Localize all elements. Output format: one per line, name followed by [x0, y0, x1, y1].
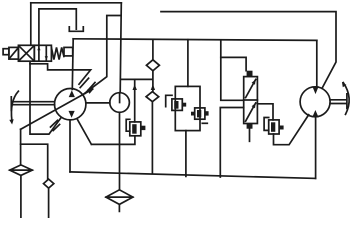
wire: filter F3 stub	[118, 204, 120, 211]
directional valve V2 flow diagonal lower	[246, 103, 256, 121]
relief valve RV2b tank dash	[202, 122, 207, 124]
relief RV2b poppet bar	[197, 110, 201, 117]
wire: pump P1 to pilot pump P2 link	[86, 102, 110, 104]
wire: bus line y=39	[73, 39, 317, 41]
pump P1 bottom flow triangle	[69, 111, 75, 118]
pilot valve block U1 body	[175, 86, 200, 130]
wire: block U1 down to return	[185, 131, 187, 177]
check arrow head on x=152.9	[151, 84, 155, 90]
check diamond D1	[146, 60, 159, 71]
filter F3 diamond	[106, 190, 133, 205]
wire: valve V2 right port to relief RV3	[257, 104, 273, 120]
pilot pump P2 port line	[119, 93, 121, 103]
return line y=172-178	[70, 172, 316, 179]
position box 1 crossed arrows	[20, 47, 33, 60]
solenoid diagonal	[10, 49, 18, 58]
wire: valve V1 port B riser	[39, 9, 76, 45]
valve V2 upper arrow head	[252, 79, 256, 84]
wire: pump P1 bottom to return line	[69, 120, 71, 172]
check diamond D2	[146, 92, 159, 102]
position box 2 arrow up	[37, 46, 40, 50]
solenoid valve V1 position box 1	[18, 45, 34, 61]
wire: staircase valve V1 bottom to pump swash	[30, 64, 91, 84]
wire: pump P1 outlet riser x=73	[71, 39, 74, 90]
motor M1 top flow triangle	[312, 86, 318, 94]
wire: relief RV1 drain	[78, 120, 135, 145]
wire: jog at y=15.5 to x=106.7 drop into pump P1	[83, 16, 121, 95]
relief valve RV2a body	[172, 99, 182, 111]
solenoid valve V1 right stub box	[64, 47, 73, 56]
wire: valve V1 port A riser to top line	[30, 3, 32, 45]
wire: vertical drop x=121 to pilot pump P2	[120, 3, 121, 93]
relief valve RV2b body	[195, 108, 205, 119]
variable arrow head	[87, 89, 94, 94]
drain cup symbol	[69, 27, 83, 32]
shaft rotation arrow	[11, 91, 18, 121]
wire: below filter F2 to bottom edge	[48, 188, 50, 218]
hatch stroke 2 at pump upper right	[85, 82, 95, 93]
wire: valve V1 left drain down x=30	[30, 61, 61, 134]
position box 2 arrow down	[45, 56, 48, 60]
wire: below filter F1 to bottom edge	[20, 175, 22, 218]
solenoid valve V1 solenoid box	[9, 47, 19, 59]
wire: solenoid pilot jog to valve V2 top	[221, 57, 246, 70]
relief valve RV1 spring nub	[141, 126, 146, 130]
filter F1 diamond	[10, 165, 33, 176]
relief RV2a poppet bar	[174, 101, 178, 109]
relief RV1 poppet bar	[132, 124, 136, 134]
solenoid valve V1 spring	[51, 47, 64, 59]
wire: top line y=2.8	[31, 2, 122, 4]
solenoid valve V1 left stub box	[3, 49, 9, 55]
wire: return riser to motor M1 bottom	[315, 118, 317, 179]
relief valve RV2b spring nub	[205, 111, 209, 115]
wire: arrow tail down to filter F1	[20, 129, 22, 165]
valve V2 lower arrow head	[252, 103, 256, 108]
position box 2 flow lines	[39, 47, 46, 61]
wire: bus drop x=152.9 to diamond D1	[152, 40, 154, 60]
pump P1 top flow triangle	[69, 90, 75, 97]
shaft rotation arrow head	[9, 119, 13, 124]
wire: diamond D2 down to return	[151, 102, 153, 173]
wire: upper bus line y=11.5	[161, 12, 336, 89]
directional valve V2 flow diagonal upper	[246, 79, 256, 97]
motor rotation arrow head	[342, 82, 347, 87]
wire: bus drop x=220.8 P-line to valve V2	[221, 40, 244, 100]
hatch stroke at pump lower left	[51, 120, 58, 127]
relief valve RV3 spring nub	[279, 126, 284, 130]
hatch stroke 2 at pump lower left	[53, 124, 59, 130]
wire: bus drop to motor M1 top	[316, 40, 318, 87]
wire: relief RV3 drain to motor M1	[274, 115, 309, 145]
pilot pump P2 circle	[110, 93, 130, 113]
wire: bus drop to block U1	[187, 40, 189, 87]
directional valve V2 divider	[244, 99, 258, 101]
wire: pilot pump P2 down to filter F3	[119, 112, 121, 190]
motor shaft rotation arrow	[343, 83, 349, 115]
wire: check line x=134.7 to relief RV1	[134, 79, 136, 122]
relief valve RV3 pilot bracket	[264, 118, 269, 131]
solenoid valve V1 position box 2	[34, 45, 51, 61]
wire: tee y=144 to filter F2	[21, 144, 48, 179]
relief valve RV2a spring nub	[182, 103, 186, 107]
directional valve V2 solenoid tab	[247, 71, 253, 77]
wire: tee y=79.4 from P2 riser to check line	[121, 78, 152, 80]
motor M1 bottom flow triangle	[312, 110, 318, 117]
directional valve V2 bottom stub	[249, 129, 251, 142]
variable displacement arrow through pump P1	[21, 89, 93, 129]
check arrow head on x=134.7	[133, 84, 137, 90]
relief valve RV3 body	[269, 120, 279, 134]
relief valve RV1 body	[130, 122, 141, 136]
motor M1 shaft	[330, 94, 347, 109]
drive shaft of pump P1	[11, 97, 54, 111]
hatch stroke 1 at pump upper right	[80, 78, 88, 87]
wire: between diamonds x=152.9	[152, 71, 154, 92]
pump P1 circle	[54, 89, 85, 120]
relief RV3 poppet bar	[271, 122, 275, 132]
relief valve RV2b left nub	[191, 112, 195, 116]
directional valve V2 bottom tab	[247, 124, 253, 129]
wire: valve V2 T-line down to return	[220, 108, 243, 178]
directional valve V2 body	[244, 77, 258, 124]
filter F2 small diamond	[44, 179, 54, 188]
motor M1 circle	[300, 87, 330, 117]
relief valve RV2a pilot bracket	[166, 95, 172, 106]
relief valve RV1 pilot bracket	[126, 119, 130, 131]
